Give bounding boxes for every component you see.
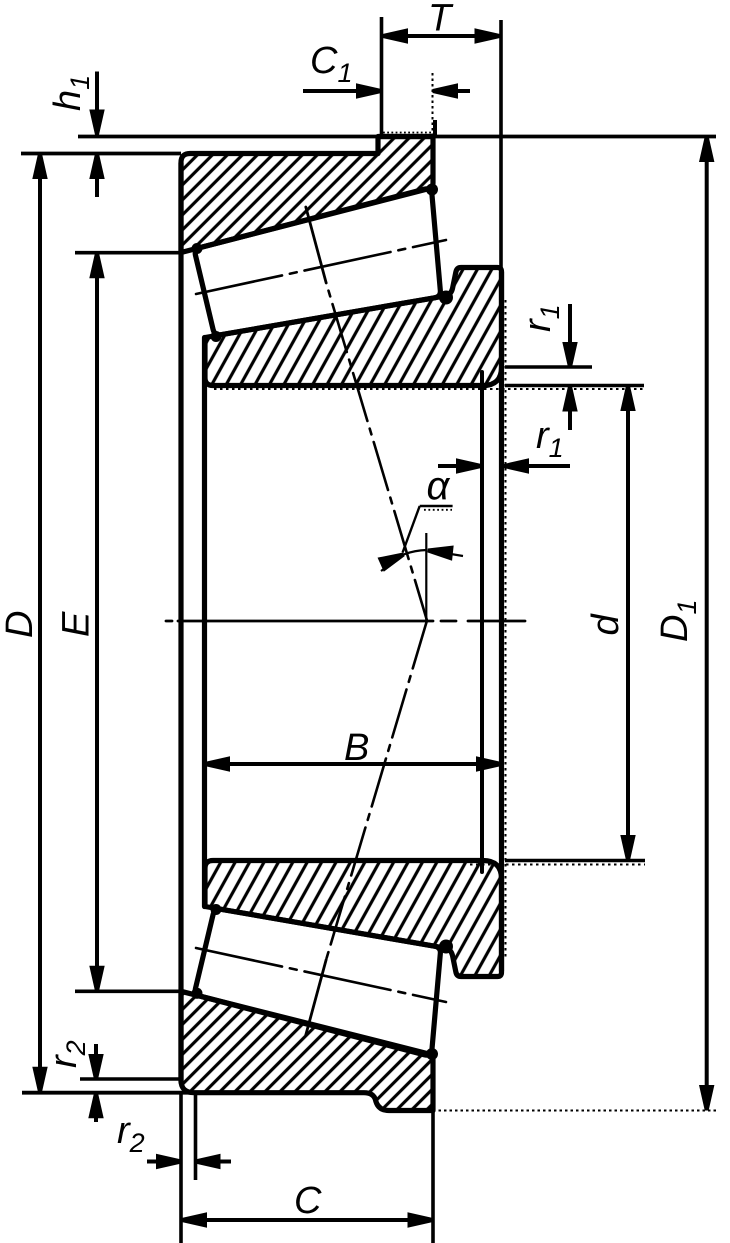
cup OD top extension line: [21, 152, 181, 156]
dimension h1: [92, 72, 102, 198]
cup front face overshoot above flange: [433, 120, 437, 138]
dimension r2 horizontal bottom: [147, 1156, 231, 1166]
dimension r1 horizontal right: [438, 461, 570, 471]
cup back face full height line: [178, 163, 183, 1082]
cone inner ring bottom section: [205, 861, 502, 977]
dotted companion of bore top extension: [214, 388, 644, 390]
bore top extension line for d: [505, 384, 644, 388]
svg-text:T: T: [428, 0, 454, 40]
flange top edge thick: [380, 134, 434, 139]
bottom roller axis dash-dot: [196, 948, 446, 1002]
flange top dotted feather: [383, 132, 431, 134]
dimension r1 vertical right: [505, 304, 592, 430]
cup back face extension to C: [179, 1093, 183, 1243]
cone inner ring top section: [205, 268, 502, 386]
svg-text:d: d: [585, 613, 627, 636]
dimension C1: [303, 73, 470, 135]
dimension T: [382, 17, 502, 269]
line of action bottom solid segment in roller: [306, 960, 326, 1036]
line of action bottom dash-dot: [326, 621, 427, 960]
dotted companion of cone back face: [505, 300, 507, 960]
flange top extension line: [78, 135, 716, 139]
svg-text:D: D: [0, 611, 41, 638]
svg-text:C: C: [294, 1180, 322, 1222]
dimension r2 vertical bottom left: [91, 1044, 101, 1122]
dotted companion of bore bottom extension: [470, 864, 645, 866]
cone front face full height line: [202, 338, 207, 907]
dimension d: [623, 386, 633, 861]
r2 tangent extension line bottom: [80, 1077, 181, 1081]
dimension D: [35, 154, 45, 1093]
flange bottom dotted extension to D1: [433, 1110, 718, 1112]
alpha vertical reference line: [425, 533, 427, 621]
line of action top dash-dot: [326, 283, 427, 621]
cup OD bottom extension line: [22, 1091, 194, 1095]
svg-text:E: E: [56, 611, 98, 637]
dimension D1: [702, 137, 712, 1111]
line of action top solid segment in roller: [306, 207, 326, 283]
SECTION-OUTLINE: [166, 137, 525, 1111]
r2 horizontal tangent extension line: [194, 1094, 198, 1180]
svg-text:α: α: [427, 464, 451, 508]
r1 fillet tangent vertical line: [480, 372, 484, 872]
main axis dash-dot: [166, 620, 525, 623]
svg-text:B: B: [344, 727, 369, 769]
dimension B: [205, 759, 502, 769]
cup outer ring top section: [181, 137, 433, 253]
cup outer ring bottom section: [181, 991, 433, 1110]
top roller axis dash-dot: [196, 240, 446, 294]
cone back face full height line: [499, 272, 504, 971]
angle alpha leader: [403, 506, 453, 553]
top roller: [192, 184, 454, 343]
alpha arc with arrows: [380, 545, 463, 571]
cup front face extension to C: [431, 1111, 435, 1243]
bore bottom extension line for d: [505, 859, 645, 863]
dimension C: [182, 1215, 434, 1225]
bottom roller: [192, 904, 454, 1060]
dimension E: [75, 253, 181, 992]
